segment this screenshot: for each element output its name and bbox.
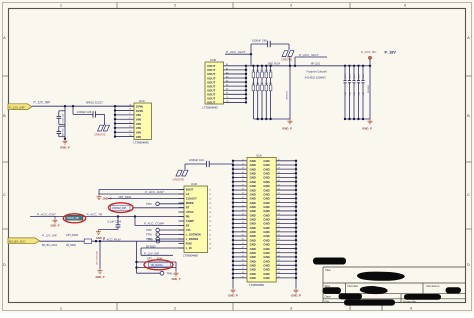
pin numbers U1D right [209, 190, 211, 251]
svg-text:D: D [3, 263, 6, 267]
wire bus U1A left [232, 160, 247, 288]
pin stubs U1D [179, 190, 185, 249]
svg-text:U1D: U1D [191, 182, 197, 186]
wire net stub top [225, 53, 252, 66]
svg-text:100uF: 100uF [363, 73, 365, 79]
redaction blob date 2 [404, 294, 441, 300]
ground GND_P U1A left [228, 288, 238, 298]
svg-text:A1: A1 [226, 63, 228, 66]
svg-text:38: 38 [242, 272, 244, 274]
svg-text:6R L101: 6R L101 [311, 62, 321, 65]
net label ATRSM_INP [111, 205, 185, 210]
svg-text:L_IN: L_IN [186, 246, 192, 250]
svg-text:41: 41 [278, 159, 280, 161]
pin numbers U1A right [278, 159, 280, 278]
svg-text:LT3680#MD: LT3680#MD [183, 253, 198, 257]
svg-text:47: 47 [278, 184, 280, 186]
test point TP30 [146, 202, 184, 206]
svg-text:COMP: COMP [186, 219, 194, 223]
svg-text:25: 25 [242, 218, 244, 220]
svg-text:P_ACC_IGNT: P_ACC_IGNT [37, 213, 57, 217]
svg-text:21: 21 [242, 201, 244, 203]
wire bus U1B right [224, 63, 248, 103]
svg-text:28: 28 [209, 221, 211, 223]
svg-text:4: 4 [129, 117, 130, 119]
label U1A [256, 153, 262, 157]
net label TRSM_INP highlighted [66, 215, 84, 220]
svg-text:34: 34 [209, 248, 211, 250]
test point TP33 [146, 237, 184, 241]
svg-text:55: 55 [278, 218, 280, 220]
diode CR60705 (U1A) [173, 164, 189, 181]
diode CR60705 (input) [94, 114, 110, 136]
redaction blob size [323, 287, 342, 294]
svg-text:4: 4 [404, 4, 406, 8]
svg-text:100uF: 100uF [358, 73, 360, 79]
svg-text:31: 31 [129, 109, 131, 111]
svg-text:30: 30 [209, 230, 211, 232]
inductor L101 [305, 62, 327, 79]
svg-text:B1: B1 [226, 80, 228, 82]
svg-text:1000uF C13: 1000uF C13 [189, 158, 204, 162]
svg-text:VIN: VIN [136, 135, 141, 139]
svg-text:100uF: 100uF [354, 73, 356, 79]
svg-text:CLKOUT: CLKOUT [186, 197, 197, 201]
svg-text:64: 64 [278, 255, 280, 257]
svg-text:44: 44 [278, 172, 280, 174]
annotation ellipse 3 [144, 260, 173, 270]
resistor label 0R01 [268, 63, 281, 65]
svg-text:104: 104 [256, 83, 259, 85]
svg-text:C41: C41 [354, 92, 356, 95]
svg-text:Date: Date [325, 295, 332, 299]
svg-text:CR60705: CR60705 [281, 58, 293, 62]
svg-text:37: 37 [242, 268, 244, 270]
svg-text:32: 32 [242, 247, 244, 249]
annotation ellipse 2 [63, 214, 85, 223]
junction node A [64, 105, 74, 107]
capacitor C26 [73, 106, 105, 117]
svg-text:25: 25 [209, 208, 211, 210]
svg-text:22: 22 [209, 194, 211, 196]
test point TP41 [137, 271, 174, 275]
svg-text:60: 60 [278, 239, 280, 241]
svg-text:17: 17 [129, 122, 131, 124]
svg-text:LA: LA [186, 192, 190, 196]
svg-text:ATRSM_INP: ATRSM_INP [112, 207, 126, 210]
svg-text:B3: B3 [226, 89, 228, 91]
svg-text:Title: Title [325, 268, 331, 272]
svg-text:56: 56 [278, 222, 280, 224]
svg-text:2: 2 [174, 306, 176, 310]
svg-text:P_12V_INP: P_12V_INP [144, 252, 159, 256]
svg-text:46: 46 [278, 180, 280, 182]
svg-text:22: 22 [242, 205, 244, 207]
svg-text:CR60705: CR60705 [173, 177, 185, 181]
svg-text:0R_R236: 0R_R236 [66, 245, 76, 247]
svg-text:15: 15 [242, 176, 244, 178]
svg-text:P_ACC_IGNT: P_ACC_IGNT [226, 50, 247, 54]
svg-text:5R R233: 5R R233 [146, 245, 156, 248]
svg-text:GND: GND [263, 276, 269, 280]
svg-text:32: 32 [209, 239, 211, 241]
svg-text:100uF: 100uF [345, 73, 347, 79]
svg-text:10uF C04: 10uF C04 [63, 113, 65, 123]
svg-text:29: 29 [242, 235, 244, 237]
svg-text:18: 18 [129, 126, 131, 128]
svg-text:A3: A3 [226, 71, 228, 74]
net label P_ACC_IGNT (top) [226, 50, 247, 54]
svg-text:240: 240 [265, 70, 268, 72]
svg-text:20: 20 [242, 197, 244, 199]
svg-text:SS: SS [186, 224, 190, 228]
svg-text:29: 29 [209, 226, 211, 228]
svg-text:26: 26 [242, 222, 244, 224]
svg-text:240: 240 [269, 70, 272, 72]
svg-text:1000uF C40: 1000uF C40 [252, 39, 267, 43]
resistor R105 vertical [286, 65, 291, 119]
transistor U1D [184, 186, 208, 253]
svg-text:C41: C41 [363, 92, 365, 95]
ground GND_P pin loop [96, 190, 111, 201]
svg-text:GND_P: GND_P [282, 126, 292, 130]
wire bus U1C left [114, 104, 134, 137]
port BO_BO_ACC [8, 238, 40, 244]
svg-text:D: D [467, 263, 470, 267]
svg-text:U1B: U1B [210, 58, 216, 62]
svg-text:69: 69 [278, 276, 280, 278]
svg-text:Revisions: Revisions [427, 284, 441, 288]
svg-text:67: 67 [278, 268, 280, 270]
svg-text:Footprint Coilcraft: Footprint Coilcraft [307, 70, 327, 74]
svg-text:A4: A4 [226, 75, 228, 78]
svg-text:100uF: 100uF [349, 73, 351, 79]
svg-text:26: 26 [209, 212, 211, 214]
label LT3680#MD U1A [249, 283, 264, 287]
svg-text:GND_P: GND_P [51, 223, 60, 227]
label U1D [191, 182, 197, 186]
resistor R244 optional block [135, 241, 176, 273]
svg-text:23: 23 [209, 199, 211, 201]
svg-text:68: 68 [278, 272, 280, 274]
svg-text:49: 49 [278, 193, 280, 195]
svg-text:3: 3 [290, 4, 292, 8]
ground GND_P U1A right [291, 288, 301, 298]
svg-text:1: 1 [60, 4, 62, 8]
svg-text:35: 35 [242, 260, 244, 262]
svg-text:P_ACC_RUN: P_ACC_RUN [103, 237, 121, 241]
svg-text:58: 58 [278, 230, 280, 232]
svg-text:45: 45 [278, 176, 280, 178]
svg-text:32: 32 [129, 104, 131, 106]
svg-text:Drawn By:: Drawn By: [403, 299, 417, 303]
svg-text:L_BNSSN: L_BNSSN [186, 237, 198, 241]
svg-text:53: 53 [278, 209, 280, 211]
label LT3680#MD U1D [183, 253, 198, 257]
net name P_18V [385, 51, 397, 55]
svg-text:BO_BO_ACC: BO_BO_ACC [9, 240, 25, 244]
svg-text:P_ACC_IGNT: P_ACC_IGNT [299, 53, 320, 57]
svg-text:23: 23 [242, 209, 244, 211]
svg-text:OPT_R209: OPT_R209 [66, 234, 79, 237]
svg-text:C41: C41 [358, 92, 360, 95]
svg-text:104: 104 [260, 83, 263, 85]
svg-text:1: 1 [60, 306, 62, 310]
svg-text:TPM: TPM [146, 202, 151, 206]
svg-text:C41: C41 [345, 92, 347, 95]
label LT3680#MD U1B [203, 106, 218, 110]
svg-text:1000pF C26: 1000pF C26 [77, 110, 92, 114]
label U1B [210, 58, 216, 62]
wire P_ACC_RUN row [40, 233, 185, 247]
svg-text:P_ACC_TR: P_ACC_TR [87, 213, 104, 217]
wire P_ACC_TR row [30, 213, 184, 217]
ground GND_P R250 [96, 269, 105, 279]
svg-text:BOUT: BOUT [186, 188, 194, 192]
capacitor bank C41-C45 [344, 65, 365, 119]
svg-text:24: 24 [209, 203, 211, 205]
svg-text:61: 61 [278, 243, 280, 245]
ground GND_P stub [51, 217, 60, 228]
svg-text:GND_P: GND_P [291, 294, 301, 298]
svg-text:Number: Number [348, 284, 359, 288]
svg-text:10R R105: 10R R105 [286, 90, 288, 100]
svg-text:B2: B2 [226, 85, 228, 87]
ground GND_P under C22 [60, 139, 70, 149]
resistor R801 label [86, 101, 103, 105]
svg-text:104: 104 [252, 83, 255, 85]
svg-text:50: 50 [278, 197, 280, 199]
svg-text:4: 4 [410, 306, 412, 310]
svg-text:33: 33 [209, 244, 211, 246]
svg-text:Size: Size [325, 284, 331, 288]
op-amp U1C [134, 103, 152, 139]
svg-text:0R R106: 0R R106 [368, 84, 370, 93]
svg-text:10uF C05: 10uF C05 [63, 128, 65, 138]
svg-text:TPM: TPM [146, 228, 151, 232]
label LT3680#MD U1C [134, 140, 149, 144]
svg-text:BO_BO_ACC1: BO_BO_ACC1 [42, 244, 58, 247]
svg-text:A2: A2 [226, 67, 228, 70]
svg-text:TRSM_INP: TRSM_INP [67, 217, 79, 220]
svg-text:27: 27 [209, 217, 211, 219]
pin numbers U1A left [242, 159, 244, 278]
label U1C [139, 99, 145, 103]
svg-text:LT3680#MD: LT3680#MD [203, 106, 218, 110]
diode CR60705 (C40) [281, 44, 294, 66]
svg-text:CR60705: CR60705 [94, 132, 106, 136]
svg-text:UT/SC: UT/SC [186, 210, 194, 214]
connector U1A [247, 158, 276, 283]
op-amp U1B [205, 62, 224, 105]
redaction blob revisions [446, 287, 462, 293]
svg-text:C41: C41 [349, 92, 351, 95]
svg-text:P_ACC_IGNT: P_ACC_IGNT [145, 190, 165, 194]
redaction blob above title block [313, 258, 346, 265]
svg-text:3: 3 [129, 113, 130, 115]
wire pin3 [108, 198, 184, 200]
svg-text:GND_P: GND_P [60, 145, 70, 149]
capacitor C22 pair [57, 106, 67, 140]
svg-text:TP41: TP41 [167, 272, 174, 275]
test point TP31 [146, 228, 184, 232]
redaction blob date [339, 293, 363, 299]
svg-text:42: 42 [278, 163, 280, 165]
resistor R236 series [84, 239, 91, 243]
annotation ellipse 1 [109, 203, 134, 213]
svg-text:12: 12 [242, 163, 244, 165]
svg-text:21: 21 [209, 190, 211, 192]
svg-text:48: 48 [278, 189, 280, 191]
redaction blob title [357, 272, 405, 281]
svg-text:65: 65 [278, 260, 280, 262]
svg-text:18: 18 [242, 189, 244, 191]
svg-text:240: 240 [256, 70, 259, 72]
wire R233 row [141, 245, 184, 248]
svg-text:19: 19 [242, 193, 244, 195]
wire pin1 P_ACC_IGNT [99, 190, 184, 194]
svg-text:P_18V: P_18V [385, 51, 397, 55]
svg-text:66: 66 [278, 264, 280, 266]
resistor R250 to ground [97, 241, 100, 268]
title block [323, 267, 466, 311]
svg-text:L_OUTMON: L_OUTMON [186, 233, 201, 237]
svg-text:31: 31 [209, 235, 211, 237]
svg-text:104: 104 [265, 83, 268, 85]
svg-text:14: 14 [242, 172, 244, 174]
svg-text:TPM: TPM [148, 239, 153, 242]
svg-text:VOUT: VOUT [207, 101, 216, 105]
svg-text:CTL: CTL [186, 228, 192, 232]
svg-text:17: 17 [242, 184, 244, 186]
svg-text:33: 33 [242, 251, 244, 253]
svg-text:54: 54 [278, 214, 280, 216]
svg-text:30: 30 [242, 239, 244, 241]
power port P_ACC_BU [361, 50, 377, 59]
svg-text:62: 62 [278, 247, 280, 249]
svg-text:P_12V_INP: P_12V_INP [34, 100, 52, 104]
svg-text:P_12V_INP: P_12V_INP [9, 106, 25, 110]
svg-text:0R001 SC227: 0R001 SC227 [86, 101, 103, 105]
svg-text:28: 28 [242, 230, 244, 232]
ground GND_P R244 [172, 268, 181, 281]
svg-text:104: 104 [269, 83, 272, 85]
svg-text:27: 27 [242, 226, 244, 228]
svg-text:GND_P: GND_P [172, 277, 181, 281]
svg-text:U1A: U1A [256, 153, 262, 157]
ground GND_P (caps) [362, 119, 372, 130]
svg-text:52: 52 [278, 205, 280, 207]
svg-text:GND_P: GND_P [362, 126, 372, 130]
svg-text:57: 57 [278, 226, 280, 228]
net label P_ACC_IGNT (mid) [294, 53, 327, 67]
svg-text:C: C [467, 193, 470, 197]
svg-text:C: C [3, 193, 6, 197]
wire gnd rail left columns [253, 118, 290, 120]
svg-text:51: 51 [278, 201, 280, 203]
wire P_ACC_COMP [134, 215, 184, 225]
svg-text:59: 59 [278, 235, 280, 237]
svg-text:C2: C2 [226, 101, 228, 103]
ground GND_P C234 [96, 230, 105, 241]
svg-text:PB: PB [186, 215, 190, 219]
svg-text:240: 240 [260, 70, 263, 72]
svg-text:39: 39 [242, 276, 244, 278]
test point TP40 [148, 239, 160, 243]
svg-text:36: 36 [242, 264, 244, 266]
svg-text:20: 20 [129, 135, 131, 137]
junction dots run [95, 240, 101, 242]
svg-text:RT: RT [186, 206, 190, 210]
resistor R106 vertical [368, 59, 371, 120]
svg-text:TPM: TPM [146, 233, 151, 237]
svg-text:OPT_R250 0R: OPT_R250 0R [97, 251, 99, 265]
svg-text:LT3680#MD: LT3680#MD [134, 140, 149, 144]
svg-text:GND_P: GND_P [96, 275, 105, 279]
ground GND_P (columns) [282, 119, 292, 130]
wire bus U1A right [276, 160, 297, 288]
resistor array RB21 [252, 65, 272, 119]
svg-text:U1C: U1C [139, 99, 145, 103]
capacitor C234 [99, 215, 122, 229]
svg-text:34: 34 [242, 255, 244, 257]
capacitor C40 [251, 39, 289, 55]
svg-text:LT3680#MD: LT3680#MD [249, 283, 264, 287]
svg-text:240: 240 [252, 70, 255, 72]
svg-text:MODE: MODE [186, 201, 194, 205]
wire gnd rail caps [344, 118, 370, 120]
svg-text:XAL4020-102MHC: XAL4020-102MHC [305, 75, 327, 79]
svg-text:0.1uF C254: 0.1uF C254 [108, 220, 122, 224]
svg-text:3: 3 [290, 306, 292, 310]
svg-text:2: 2 [174, 4, 176, 8]
svg-text:File: File [325, 299, 330, 303]
wire P_12V rail [32, 105, 134, 107]
svg-text:GND: GND [250, 276, 256, 280]
svg-text:B4: B4 [226, 93, 228, 95]
svg-text:63: 63 [278, 251, 280, 253]
svg-text:11: 11 [242, 159, 244, 161]
port P_12V_INP [8, 104, 32, 110]
svg-text:13: 13 [242, 168, 244, 170]
svg-text:24: 24 [242, 214, 244, 216]
net label P_12V_INP [34, 100, 52, 104]
wire rail P_ACC node [246, 65, 370, 67]
svg-text:43: 43 [278, 168, 280, 170]
svg-text:16: 16 [242, 180, 244, 182]
redaction blob number [360, 286, 388, 294]
net label P_12V_INP stub [141, 248, 173, 256]
svg-text:C1: C1 [226, 97, 228, 99]
svg-text:GND_P: GND_P [228, 294, 238, 298]
svg-text:P_12V_INP: P_12V_INP [42, 233, 57, 237]
test point TP32 [146, 233, 184, 237]
capacitor C13 [185, 158, 233, 167]
redaction blob file [344, 299, 395, 305]
svg-text:P_ACC_COMP: P_ACC_COMP [144, 222, 164, 226]
svg-text:P_ACC_BU: P_ACC_BU [361, 50, 377, 54]
svg-text:19: 19 [129, 130, 131, 132]
svg-text:RUN: RUN [186, 242, 192, 246]
svg-text:31: 31 [242, 243, 244, 245]
svg-text:0R_R244A: 0R_R244A [151, 264, 163, 267]
wire pin2 OPT_R202 [99, 194, 184, 199]
